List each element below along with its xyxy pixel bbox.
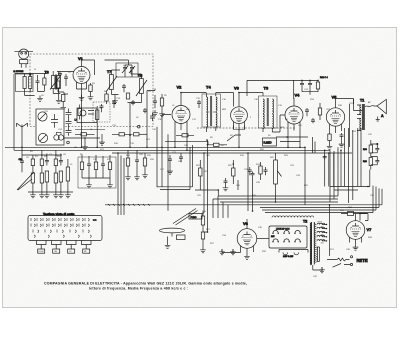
hatch ticks on shielded wire — [108, 204, 150, 206]
svg-text:T7: T7 — [107, 70, 111, 74]
trimmer caps column — [66, 109, 72, 136]
speaker — [365, 99, 386, 121]
socket bracket V3 — [234, 126, 245, 130]
bracket below selector — [279, 250, 308, 255]
lower winding — [317, 247, 320, 261]
wire speaker — [350, 99, 363, 148]
main bus wire A — [5, 146, 305, 148]
capacitor C23 — [248, 167, 252, 175]
ground — [88, 94, 94, 100]
input coil Lb — [29, 74, 32, 92]
svg-text:FONO: FONO — [191, 217, 197, 219]
wire — [257, 238, 269, 240]
wire motor leads — [14, 73, 33, 75]
ground — [152, 110, 158, 116]
vertical drops center — [204, 140, 276, 213]
capacitor C26 — [251, 172, 255, 178]
resistor R16c — [134, 133, 148, 136]
svg-text:OM: OM — [54, 251, 57, 253]
bus verticals — [82, 91, 301, 151]
wire x14 — [13, 74, 15, 150]
resistor R1 — [56, 81, 64, 92]
wire — [128, 70, 142, 103]
nested rails right — [105, 196, 382, 213]
wire rete riser — [329, 204, 331, 256]
tube V1 — [73, 60, 90, 90]
key tab labels — [39, 251, 88, 253]
svg-text:160: 160 — [321, 235, 324, 237]
inner dashed box L8 — [93, 102, 110, 122]
capacitor C26s — [371, 157, 380, 165]
capacitor C30 — [323, 155, 327, 160]
output transformer T1 — [357, 104, 364, 131]
long verticals to keyboard — [118, 127, 168, 215]
ground — [165, 243, 171, 249]
svg-text:R.MED: R.MED — [264, 142, 272, 145]
resistor R2 — [62, 95, 65, 105]
power transformer T2 — [310, 222, 327, 265]
keyboard box — [28, 216, 102, 241]
resistor L7 — [78, 105, 81, 120]
resistor Ra — [43, 74, 46, 92]
svg-text:COMPAGNIA GENERALE DI ELETTRIC: COMPAGNIA GENERALE DI ELETTRICITA - Appa… — [44, 281, 247, 285]
capacitor C14b — [308, 80, 312, 91]
capacitor C24 — [223, 178, 229, 191]
wire tops — [22, 154, 61, 156]
ground — [219, 249, 225, 255]
volume pot — [274, 153, 282, 192]
tube V6 — [237, 219, 257, 254]
right verticals upper — [305, 128, 361, 205]
svg-text:300: 300 — [321, 227, 324, 229]
mains plug RETE — [327, 256, 353, 268]
svg-text:T6: T6 — [45, 71, 49, 75]
node ring left — [67, 141, 70, 144]
svg-text:V2: V2 — [177, 85, 183, 90]
svg-text:T5: T5 — [138, 74, 142, 78]
ground — [60, 105, 66, 111]
ground — [79, 95, 85, 101]
resistor R22 — [232, 160, 235, 184]
wire V2 plate — [162, 93, 207, 148]
small caps near V4 — [305, 103, 322, 123]
rectifier feed resistor — [341, 212, 368, 221]
mid strip resistor R16 — [75, 133, 95, 136]
selector block — [269, 226, 307, 248]
svg-text:T1: T1 — [360, 99, 364, 103]
tuning gang box — [36, 109, 64, 145]
svg-text:lettore di frequenza. Media Fr: lettore di frequenza. Media Frequenza a … — [89, 287, 188, 291]
scalloped shield line — [272, 216, 314, 218]
component labels scatter — [26, 65, 375, 278]
capacitor C1 — [57, 72, 67, 81]
svg-text:T4: T4 — [206, 85, 211, 90]
svg-text:AL MOTORE: AL MOTORE — [13, 70, 24, 73]
capacitor C5 on antenna lead — [20, 159, 24, 172]
capacitor C13 — [112, 100, 116, 108]
svg-text:Tastiera vista di sotto: Tastiera vista di sotto — [43, 212, 75, 216]
wire — [216, 93, 234, 107]
key tabs — [37, 241, 92, 254]
capacitor — [59, 157, 63, 166]
ground — [82, 144, 88, 150]
capacitor C11 — [100, 104, 104, 112]
resistor R16b — [112, 133, 133, 136]
wire — [75, 129, 105, 131]
wire — [33, 74, 47, 92]
tube V4 — [285, 98, 303, 131]
IF transformer T4 — [202, 94, 221, 132]
ground — [319, 267, 325, 273]
transformer T6 — [50, 71, 61, 94]
extra osc caps in box — [122, 84, 147, 113]
coupler box — [77, 108, 97, 123]
caps inside loop — [168, 155, 172, 168]
capacitor Ca — [36, 75, 40, 88]
oscillator capacitor C9 — [147, 89, 157, 109]
ground — [159, 111, 165, 117]
node ring on dashed line — [138, 125, 141, 128]
ground — [99, 139, 105, 145]
ground line — [28, 191, 73, 193]
wire loop box — [157, 145, 193, 190]
dashed shield box — [30, 54, 153, 127]
coil T7 — [106, 70, 117, 95]
wire — [64, 72, 74, 95]
wire strip — [60, 134, 102, 144]
resistor R9 — [207, 143, 227, 146]
small net box R.MED — [263, 138, 277, 146]
resistor pair right of V6 zone — [259, 162, 268, 180]
trimmer box C3 C4 — [105, 60, 139, 77]
svg-text:V6: V6 — [243, 221, 249, 226]
wire center-bottom — [195, 180, 238, 196]
wire — [53, 93, 60, 98]
wire — [302, 92, 318, 95]
keyboard contacts — [31, 218, 91, 237]
svg-text:125: 125 — [321, 243, 324, 245]
wire y141 — [165, 141, 208, 145]
AVC dashed line — [197, 127, 295, 129]
aux wire y137 — [276, 137, 308, 142]
resistor R11 — [369, 158, 372, 170]
main bus wire C — [112, 152, 352, 154]
input transformer box — [16, 74, 34, 92]
capacitor C26r — [371, 143, 380, 153]
resistor R21 — [199, 160, 202, 190]
main bus wire B — [14, 149, 330, 151]
ground — [30, 192, 36, 198]
tube V7 — [346, 214, 365, 245]
svg-text:T3: T3 — [264, 86, 269, 91]
band switch arm — [17, 172, 34, 190]
coil L8 — [96, 106, 99, 123]
switch arm mid — [227, 135, 241, 141]
secondary winding rows — [317, 223, 327, 224]
pickup arm FONO — [160, 209, 203, 243]
coil — [66, 167, 69, 181]
capacitor — [45, 157, 49, 166]
tube V3 — [231, 100, 248, 131]
ground — [353, 244, 359, 250]
tube V2 — [172, 93, 190, 131]
svg-text:FONO: FONO — [39, 251, 45, 253]
svg-text:R12 C 4: R12 C 4 — [320, 77, 328, 79]
ground — [112, 98, 118, 104]
wire cathode pins — [77, 89, 87, 95]
wire plate top — [82, 60, 95, 75]
ground — [230, 249, 236, 255]
capacitor C15 — [197, 100, 201, 108]
wire V5 plate — [336, 99, 354, 105]
svg-text:V3: V3 — [234, 86, 240, 91]
mid-left block — [78, 155, 116, 188]
tuned circuit row — [31, 150, 69, 192]
wire V3 plate — [239, 93, 263, 100]
phono motor M — [14, 49, 33, 68]
svg-text:24W 0-125: 24W 0-125 — [283, 256, 294, 258]
transformer bottom leads — [313, 265, 322, 270]
resistor R10 — [369, 140, 372, 157]
capacitor C2 — [64, 74, 68, 86]
resistor R3 — [89, 83, 92, 94]
resistor R12 — [316, 80, 319, 92]
V7 top feeds — [351, 214, 367, 221]
wire — [272, 115, 285, 132]
resistor — [40, 159, 43, 166]
svg-text:A: A — [381, 114, 384, 118]
components under T5/V2 — [125, 150, 148, 180]
svg-text:V7: V7 — [367, 227, 373, 232]
svg-text:LUCE 2P ACC: LUCE 2P ACC — [276, 228, 290, 231]
resistor — [54, 159, 57, 166]
coil T5 — [136, 74, 147, 99]
detector box wires — [247, 80, 318, 99]
input coil La — [23, 74, 26, 92]
padder caps right of gang — [150, 113, 155, 122]
cathode wires and grounds — [222, 249, 241, 253]
wire — [112, 70, 121, 98]
resistor — [31, 159, 34, 166]
svg-text:RETE: RETE — [357, 258, 368, 263]
ground — [56, 98, 62, 104]
cathode parts V5 — [327, 132, 345, 150]
ground — [37, 96, 43, 102]
feed resistors left of V6 — [200, 213, 207, 253]
resistor under V2 — [176, 134, 194, 137]
resistor R5 — [160, 94, 163, 111]
capacitor C14 — [300, 80, 304, 91]
resistor R4 — [105, 92, 108, 104]
tube V5 — [326, 99, 344, 134]
IF transformer T3 — [259, 96, 278, 132]
svg-text:V4: V4 — [295, 93, 301, 98]
ground — [244, 254, 250, 260]
antenna — [17, 123, 28, 147]
svg-text:T2: T2 — [303, 220, 307, 224]
wire antenna down — [21, 147, 23, 159]
wire — [25, 92, 35, 96]
